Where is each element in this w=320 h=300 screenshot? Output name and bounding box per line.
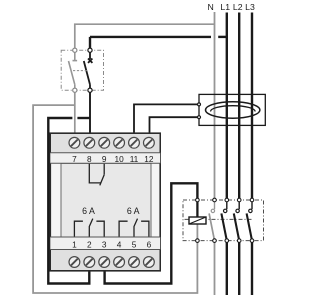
relay changeover contact 4-5-6 — [119, 219, 149, 237]
wire N vertical line — [214, 12, 216, 200]
contactor contact L3 — [247, 202, 252, 296]
switch S1b (black, breaker X contact) — [84, 52, 93, 88]
svg-text:N: N — [208, 2, 214, 12]
current transformer T1 inner ring arc — [211, 106, 256, 112]
svg-text:L3: L3 — [245, 2, 255, 12]
svg-text:11: 11 — [130, 154, 139, 164]
wire L1 branch horizontal to switch (with crossing break at N) — [90, 36, 211, 38]
current transformer T1 ring (ellipse) — [206, 102, 260, 118]
relay device K1 inner panel — [61, 163, 151, 237]
contactor coil Q1 — [189, 200, 206, 241]
svg-text:1: 1 — [72, 240, 77, 250]
current transformer T1 terminal l — [198, 116, 201, 119]
svg-text:2: 2 — [87, 240, 92, 250]
svg-text:12: 12 — [144, 154, 154, 164]
terminal screws bottom row 1-6 — [69, 257, 154, 268]
current transformer T1 body — [199, 94, 265, 125]
contactor contact N (gray) — [209, 202, 214, 296]
contactor Q1 coupling dash line — [185, 218, 253, 220]
relay device K1 bottom terminal strip — [50, 237, 160, 250]
wire CT secondary l to screw 12 — [150, 117, 200, 141]
wire black from screw 3 to contactor coil top — [105, 183, 198, 283]
switch enclosure S1 (dash-dot box) — [61, 50, 103, 90]
wire gray loop: switch bottom around left and bottom to contactor coil — [33, 105, 197, 293]
switch S1b terminal circles — [88, 48, 92, 52]
contactor bottom terminal nodes — [196, 239, 254, 243]
contactor contact L2 — [234, 202, 240, 296]
wire black loop: switch junction to screw 2 (break at gray crossing) — [77, 117, 90, 119]
wire L3 vertical line — [251, 13, 253, 201]
svg-text:4: 4 — [117, 240, 122, 250]
svg-text:6 A: 6 A — [82, 206, 95, 216]
relay device K1 top screw band — [51, 134, 160, 153]
switch mechanical coupling dashes — [73, 70, 88, 72]
svg-text:L1: L1 — [220, 2, 230, 12]
wire CT secondary k to screw 11 — [134, 104, 199, 141]
current transformer T1 terminal k — [198, 103, 201, 106]
relay device K1 bottom screw band — [51, 250, 160, 271]
wire gray from switch bottom to screw 7 — [74, 92, 76, 141]
switch S1a terminal circles — [73, 48, 77, 52]
wire N branch horizontal to switch — [75, 24, 215, 48]
contactor enclosure Q1 (dash-dot box) — [183, 200, 264, 241]
relay changeover contact 1-2-3 — [74, 219, 104, 237]
svg-text:9: 9 — [102, 154, 107, 164]
svg-text:6 A: 6 A — [127, 206, 140, 216]
terminal screws top row 7-12 — [69, 137, 154, 148]
contactor top terminal nodes — [196, 198, 254, 202]
svg-text:10: 10 — [114, 154, 124, 164]
svg-text:L2: L2 — [233, 2, 243, 12]
relay device K1 body — [50, 133, 160, 271]
svg-text:3: 3 — [102, 240, 107, 250]
pin numbers 7-12 — [72, 154, 154, 164]
svg-text:8: 8 — [87, 154, 92, 164]
switch S1a (gray, with bar contact) — [69, 52, 78, 88]
contactor contact L1 — [221, 202, 227, 296]
svg-text:6: 6 — [147, 240, 152, 250]
wire black from switch bottom to screw 8 — [89, 92, 91, 141]
wire L1 vertical line — [226, 13, 228, 201]
svg-text:7: 7 — [72, 154, 77, 164]
control contact between pins 8 and 9 — [89, 164, 104, 186]
wire L2 vertical line — [238, 13, 240, 201]
svg-text:5: 5 — [132, 240, 137, 250]
pin numbers 1-6 — [72, 240, 151, 250]
relay device K1 top terminal strip — [50, 153, 160, 164]
